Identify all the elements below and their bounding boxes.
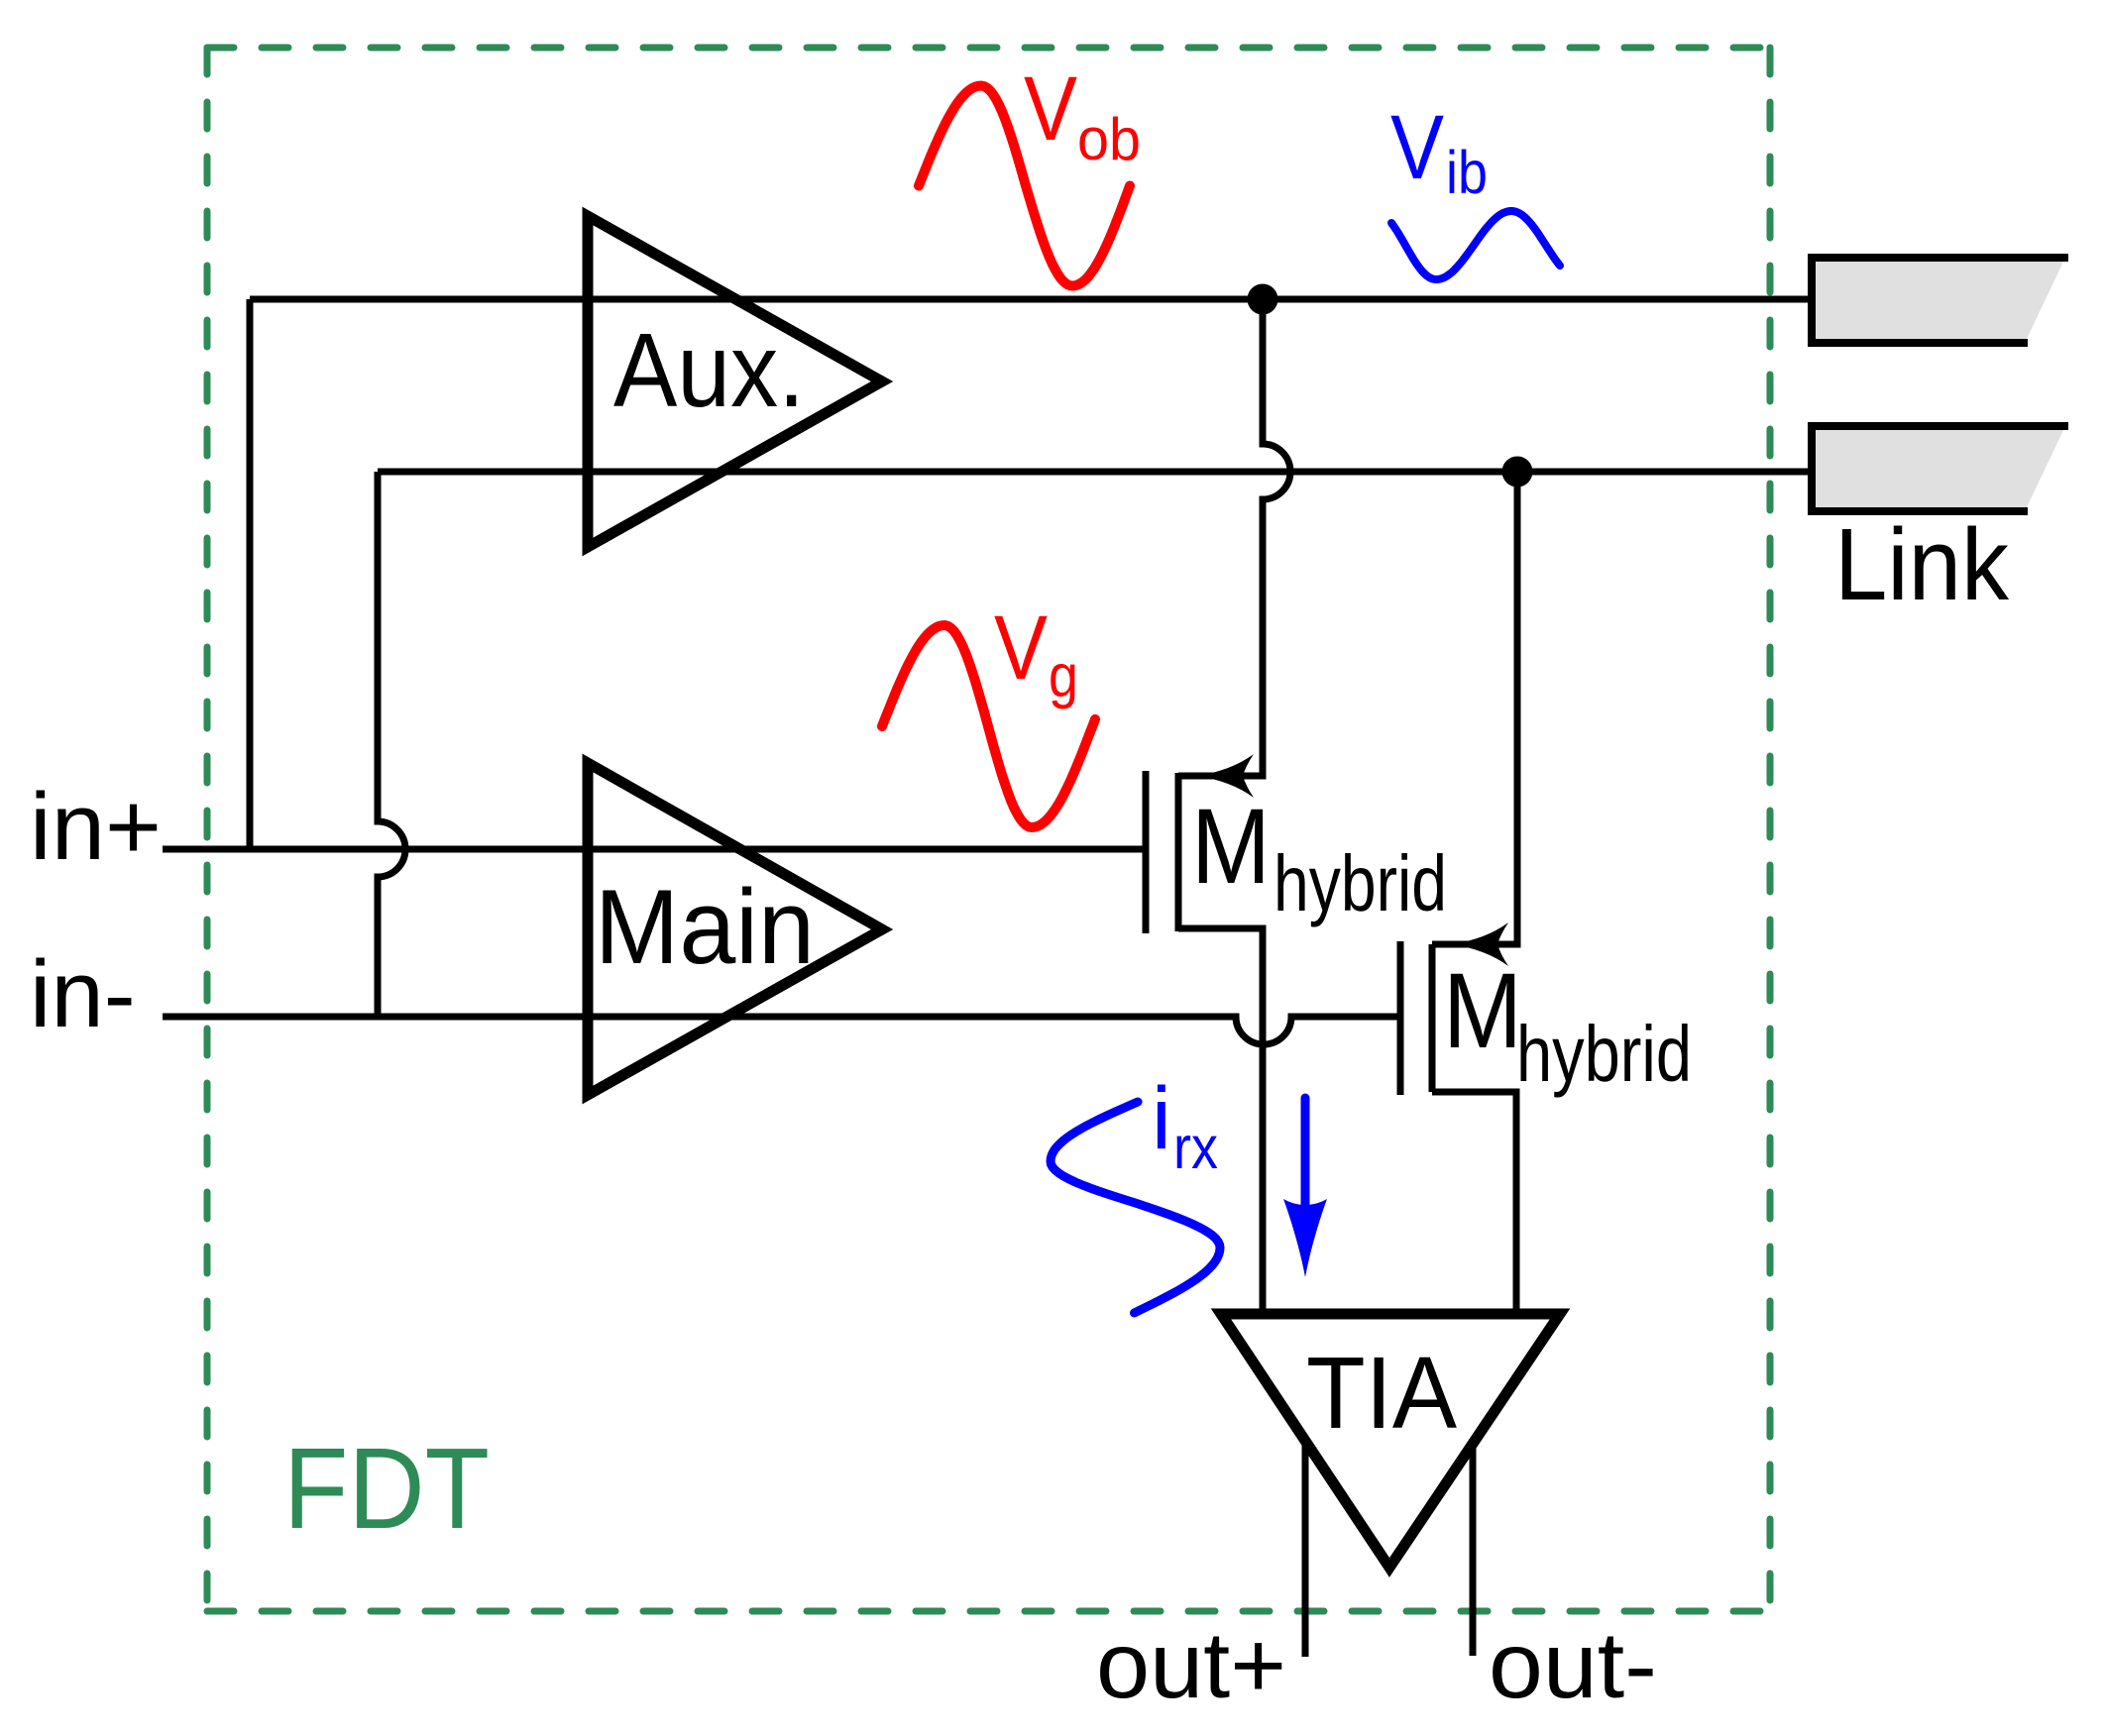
- svg-text:rx: rx: [1173, 1114, 1218, 1181]
- svg-text:in+: in+: [30, 774, 162, 880]
- wire: in+ input line: [163, 846, 1143, 853]
- svg-text:g: g: [1049, 642, 1078, 709]
- Link connector pad 2 (bottom): [1812, 422, 2068, 515]
- Link connector pad 1 (top): [1812, 254, 2068, 347]
- wire: from junction down to M2 drain: [1432, 472, 1517, 944]
- transistor M1 arrow: [1196, 754, 1254, 798]
- svg-text:hybrid: hybrid: [1516, 1010, 1692, 1098]
- wire: TIA output leg out-: [1470, 1444, 1477, 1656]
- wire: TIA output leg out+: [1302, 1441, 1309, 1657]
- signal sine V_ib (blue): [1391, 211, 1560, 279]
- signal sine V_ob (red): [919, 86, 1130, 286]
- svg-text:i: i: [1152, 1068, 1171, 1167]
- svg-text:M: M: [1191, 786, 1271, 906]
- op-amp Main: [588, 763, 882, 1095]
- transistor M1 (M_hybrid) gate bar: [1143, 771, 1150, 933]
- svg-text:ib: ib: [1446, 139, 1488, 206]
- svg-text:Main: Main: [595, 867, 815, 986]
- wire: Aux bottom output line to Link: [378, 469, 1812, 476]
- wire: from junction down to M1 drain (hops over lower Aux line): [1178, 299, 1290, 776]
- wire: riser from in- up to Aux negative input (hops over in+ wire): [378, 472, 405, 1017]
- transistor M1 channel bar: [1175, 773, 1182, 931]
- svg-text:out+: out+: [1096, 1613, 1286, 1718]
- signal sine V_g (red): [882, 625, 1095, 827]
- svg-text:Aux.: Aux.: [613, 312, 805, 429]
- transistor M2 channel bar: [1429, 944, 1436, 1092]
- wire: in- input line (hops under vertical at x=1275): [163, 1017, 1397, 1044]
- svg-text:out-: out-: [1489, 1613, 1657, 1718]
- op-amp Aux: [588, 216, 882, 547]
- svg-text:V: V: [1390, 97, 1444, 198]
- svg-text:ob: ob: [1077, 106, 1141, 172]
- transistor M2 arrow: [1451, 922, 1508, 966]
- wire: Aux top output line to Link (node V_ob): [250, 296, 1812, 303]
- svg-text:V: V: [994, 597, 1048, 699]
- node junction dot on V_ob line: [1248, 284, 1278, 315]
- op-amp TIA (pointing down): [1221, 1314, 1560, 1568]
- wire: riser from in+ up to Aux positive input: [247, 299, 254, 849]
- transistor M1 source lead down to TIA: [1178, 928, 1263, 1314]
- transistor M2 source lead down to TIA: [1432, 1092, 1516, 1314]
- FDT dashed boundary box: [207, 48, 1770, 1611]
- svg-text:Link: Link: [1834, 507, 2009, 621]
- svg-text:FDT: FDT: [283, 1424, 490, 1553]
- svg-text:hybrid: hybrid: [1274, 839, 1447, 927]
- current arrow i_rx (blue): [1301, 1098, 1310, 1207]
- node junction dot on V_ib line: [1502, 457, 1533, 488]
- svg-text:TIA: TIA: [1306, 1336, 1457, 1450]
- svg-text:M: M: [1443, 950, 1522, 1070]
- transistor M2 (M_hybrid) gate bar: [1397, 941, 1404, 1095]
- signal sine i_rx (blue, vertical): [1051, 1102, 1220, 1313]
- svg-text:V: V: [1024, 58, 1077, 160]
- svg-text:in-: in-: [30, 941, 136, 1047]
